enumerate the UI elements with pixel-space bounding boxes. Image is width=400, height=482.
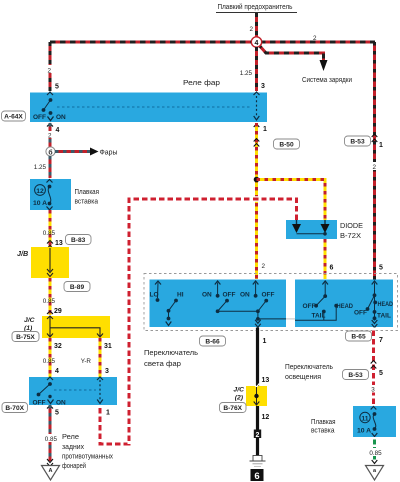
svg-text:освещения: освещения [285,374,321,381]
node b [46,147,55,157]
svg-text:B-72X: B-72X [340,233,361,240]
svg-text:HEAD: HEAD [337,303,354,310]
svg-text:(2): (2) [235,395,244,402]
svg-text:4: 4 [255,40,259,47]
B-66 internals [150,281,287,327]
svg-text:B-66: B-66 [205,339,220,346]
svg-text:B-83: B-83 [71,237,86,244]
svg-text:32: 32 [54,343,62,350]
svg-text:Реле: Реле [62,434,79,441]
B-70X label [2,403,28,413]
svg-text:J/C: J/C [24,317,35,324]
ground bolt symbol [250,456,266,467]
fusible link box left (Плавкая вставка) [30,179,99,210]
svg-text:11: 11 [361,416,368,423]
svg-text:OFF: OFF [33,400,46,407]
B-65 label [346,331,372,341]
svg-text:2: 2 [249,26,253,33]
wire node b down to fusible link [34,156,50,178]
relay pin 4 wire down to node b [47,123,60,147]
svg-text:A-64X: A-64X [4,114,23,121]
diode B-72X [286,220,363,240]
op relay headlights box (Реле фар) A-64X [30,80,267,122]
svg-text:3: 3 [105,368,109,375]
J/B junction block [17,247,69,278]
wire node4 down to relay pin 3 [240,47,265,91]
B-89 label [64,282,90,292]
wire right vertical (to B-65 pin 5) [373,42,376,280]
ground a (right) [366,460,384,480]
svg-text:Реле фар: Реле фар [183,80,220,87]
svg-text:1: 1 [106,410,110,417]
relay B-70X (rear fog relay) [29,377,117,407]
B-65 internals [295,281,393,328]
A-64X label [2,111,26,121]
svg-text:DIODE: DIODE [340,223,363,230]
svg-text:HI: HI [177,292,184,299]
B-50 label [274,139,300,149]
svg-text:Плавкая: Плавкая [75,189,100,196]
wire B-70X pin 1 loop to diode (red-white) [100,199,297,444]
wire B-66 pin1 black down to J/C(2) [258,328,270,387]
svg-text:4: 4 [56,127,60,134]
svg-text:J/B: J/B [17,249,28,258]
svg-text:Переключатель: Переключатель [285,364,333,371]
wire diode to B-65 pin 6 (yellow-red) [325,239,383,279]
svg-text:7: 7 [379,337,383,344]
B-83 label [66,235,92,245]
svg-text:TAIL: TAIL [377,313,391,320]
ground plate 6 [251,469,264,482]
redraw red-white horizontal over yellow crossing [250,196,263,202]
svg-text:B-53: B-53 [348,372,363,379]
svg-text:2: 2 [313,35,317,42]
svg-text:OFF: OFF [303,303,316,310]
svg-text:0.85: 0.85 [43,230,56,237]
svg-text:Переключатель: Переключатель [144,350,198,357]
svg-text:29: 29 [54,308,62,315]
svg-text:5: 5 [55,410,59,417]
svg-text:ON: ON [56,400,66,407]
svg-text:0.85: 0.85 [369,450,382,457]
junction dot on yellow wire [254,177,260,183]
svg-text:0.85: 0.85 [43,298,56,305]
svg-text:6: 6 [330,265,334,272]
wires J/C(1) down to relay B-70X [43,338,112,377]
svg-text:1: 1 [263,338,267,345]
svg-text:B-70X: B-70X [5,405,24,412]
dashed switch assembly enclosure [144,274,398,331]
svg-text:J/C: J/C [233,387,244,394]
svg-text:1: 1 [379,142,383,149]
wire B-65 pin7 down to fusible link right (red-white) [370,328,383,407]
svg-text:OFF: OFF [33,114,46,121]
fusible link box right [311,406,396,437]
svg-text:фонарей: фонарей [62,462,86,470]
svg-text:B-53: B-53 [350,139,365,146]
wire J/C(2) down to ground bolt 6 [254,406,270,456]
wire from fuse down to node 4 [249,13,256,40]
svg-text:6: 6 [254,471,259,482]
svg-text:B-75X: B-75X [16,334,35,341]
svg-text:3: 3 [371,387,375,394]
svg-text:1.25: 1.25 [240,70,253,77]
svg-text:LO: LO [150,292,159,299]
svg-text:B-76X: B-76X [223,405,242,412]
wire J/B down to J/C(1) [43,278,62,315]
svg-text:A: A [49,468,53,474]
svg-text:(1): (1) [24,325,33,332]
svg-text:10 A: 10 A [357,428,371,435]
B-76X label [220,403,247,413]
svg-text:0.85: 0.85 [43,358,56,365]
wire junction to diode branch (yellow-red) [257,180,326,221]
svg-text:HEAD: HEAD [378,301,394,308]
svg-text:Фары: Фары [100,150,118,157]
link between B-66 and B-65 [286,318,295,320]
svg-text:б: б [48,149,52,157]
svg-text:противотуманных: противотуманных [62,454,113,461]
svg-text:Плавкая: Плавкая [311,419,336,426]
svg-text:5: 5 [379,370,383,377]
node 4 [251,37,261,47]
svg-text:3: 3 [261,83,265,90]
svg-text:OFF: OFF [262,292,275,299]
svg-text:10 A: 10 A [33,200,47,207]
svg-text:ON: ON [56,114,66,121]
svg-text:B-65: B-65 [351,334,366,341]
svg-text:света фар: света фар [144,361,181,368]
lighting switch caption [285,364,333,381]
svg-text:2: 2 [262,263,266,270]
svg-text:2: 2 [373,164,377,171]
ground A (left) [42,459,60,480]
svg-text:2: 2 [48,68,52,75]
svg-text:1.25: 1.25 [34,164,47,171]
B-75X label [12,332,39,342]
J/C (1) joint connector [24,316,110,338]
svg-text:5: 5 [379,265,383,272]
wire to headlights (Фары) [55,148,118,157]
wire fusible link to ground (green-white) [367,437,384,462]
svg-text:12: 12 [36,188,44,195]
svg-text:задних: задних [62,444,84,451]
svg-text:OFF: OFF [354,310,367,317]
wire relay A-64X pin1 down to B-66 pin 2 (yellow-red) [254,123,267,279]
main fuse label [216,3,297,13]
svg-text:12: 12 [262,414,270,421]
svg-text:B-89: B-89 [70,284,85,291]
svg-text:0.85: 0.85 [45,436,58,443]
svg-text:2: 2 [256,432,260,439]
wire left vertical to relay pin 5 [46,42,59,91]
svg-text:1: 1 [263,126,267,133]
svg-text:Плавкий предохранитель: Плавкий предохранитель [218,3,293,11]
wire branch to charging system [258,44,352,84]
headlight switch caption [144,350,198,368]
svg-text:вставка: вставка [311,428,335,435]
svg-text:ON: ON [202,292,212,299]
svg-text:B-50: B-50 [279,142,294,149]
svg-text:13: 13 [55,240,63,247]
J/C (2) joint connector [233,384,267,410]
svg-text:Система зарядки: Система зарядки [302,77,352,84]
wire top horizontal bus [50,35,375,42]
svg-text:OFF: OFF [223,292,236,299]
svg-text:Y-R: Y-R [81,358,92,365]
svg-text:вставка: вставка [75,199,99,206]
svg-text:31: 31 [104,343,112,350]
headlight switch B-66 box [150,280,287,328]
wire fusible link to J/B (yellow-red) [43,210,63,249]
B-53 label (top right) [345,134,384,171]
B-66 label [200,336,226,346]
wire B-70X pin 5 to ground A [43,405,59,461]
svg-text:2: 2 [48,133,52,140]
rear fog relay caption [62,434,113,470]
B-53 label (lower) [343,370,369,380]
svg-text:13: 13 [262,377,270,384]
svg-text:5: 5 [55,84,59,91]
lighting switch B-65 box [295,280,393,328]
svg-text:4: 4 [55,368,59,375]
svg-text:ON: ON [240,292,250,299]
